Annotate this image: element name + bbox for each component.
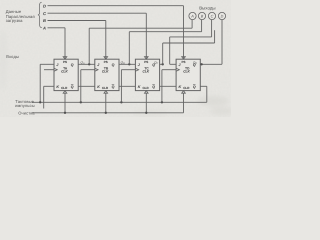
svg-text:Q: Q <box>71 63 74 67</box>
svg-text:D: D <box>221 15 224 19</box>
svg-text:загрузка: загрузка <box>6 18 23 23</box>
svg-text:Q: Q <box>193 85 196 89</box>
svg-text:K: K <box>56 85 59 89</box>
svg-text:CLK: CLK <box>102 69 109 73</box>
svg-text:Q: Q <box>71 85 74 89</box>
svg-text:CLR: CLR <box>143 86 150 90</box>
svg-text:Выходы: Выходы <box>199 5 215 10</box>
svg-text:CLK: CLK <box>143 69 150 73</box>
svg-text:CLR: CLR <box>61 86 68 90</box>
svg-text:K: K <box>138 85 141 89</box>
svg-text:Входы: Входы <box>6 54 19 59</box>
svg-text:Q: Q <box>152 85 155 89</box>
svg-text:PS: PS <box>104 60 108 64</box>
svg-text:K: K <box>97 85 100 89</box>
svg-text:CLK: CLK <box>61 69 68 73</box>
svg-text:Q: Q <box>112 63 115 67</box>
svg-text:Q: Q <box>112 85 115 89</box>
svg-text:PS: PS <box>144 60 148 64</box>
svg-text:A: A <box>190 15 194 19</box>
svg-text:PS: PS <box>63 60 67 64</box>
svg-text:B: B <box>43 18 46 23</box>
svg-text:импульсы: импульсы <box>15 103 35 108</box>
svg-text:C: C <box>211 15 214 19</box>
svg-text:B: B <box>201 15 204 19</box>
svg-text:CLR: CLR <box>183 86 190 90</box>
svg-text:C: C <box>43 11 46 16</box>
svg-text:A: A <box>42 26 46 31</box>
svg-text:K: K <box>179 85 182 89</box>
svg-text:CLK: CLK <box>183 69 190 73</box>
svg-text:D: D <box>43 3 46 8</box>
svg-text:CLR: CLR <box>102 86 109 90</box>
svg-text:PS: PS <box>181 60 185 64</box>
